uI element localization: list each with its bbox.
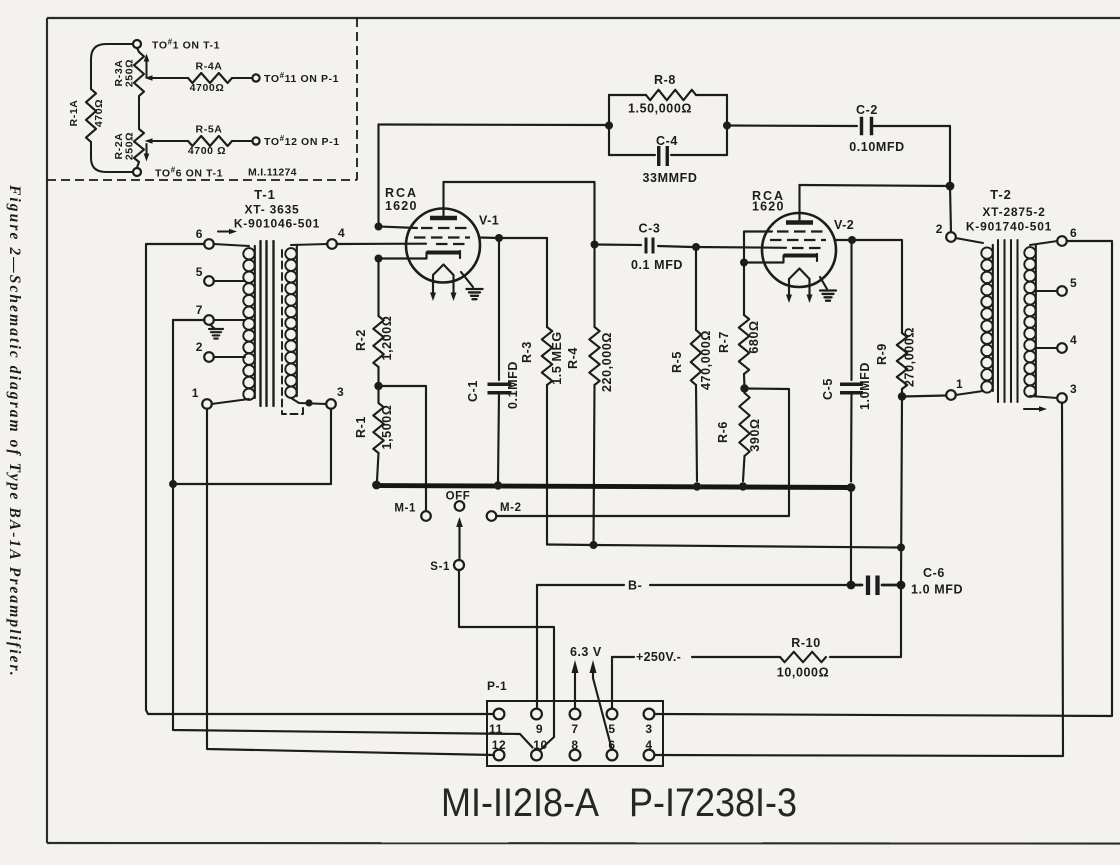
svg-text:6: 6: [608, 738, 615, 752]
node C-6 right: [897, 581, 906, 590]
svg-text:3: 3: [1070, 382, 1077, 396]
terminal TO #6 ON T-1: [133, 168, 141, 176]
P-1 pin 7: [570, 709, 581, 720]
svg-text:3: 3: [645, 722, 652, 736]
svg-text:5: 5: [196, 265, 203, 279]
svg-text:0.10MFD: 0.10MFD: [849, 140, 905, 154]
svg-text:K-901046-501: K-901046-501: [234, 217, 320, 231]
wire C-6 right down to R-10: [830, 585, 901, 657]
svg-text:R-4A: R-4A: [196, 61, 223, 73]
node bus R-6: [739, 482, 747, 490]
ground at T-1 pin 7: [210, 325, 215, 330]
T-2 pin 2: [946, 232, 956, 242]
resistor R-5 470,000 ohm: [695, 247, 697, 330]
resistor R-7 680 ohm: [743, 263, 745, 316]
resistor R-2 1200 ohm: [373, 316, 383, 367]
wire R-6/R-7 junction to M-2 jack: [497, 389, 789, 517]
node V-1 plate load: [591, 241, 599, 249]
jack M-2: [487, 511, 497, 521]
svg-text:1,200Ω: 1,200Ω: [380, 316, 394, 361]
wire T-1 pin 4 to V-1 grid: [337, 243, 427, 245]
T-1 pin 6: [204, 239, 214, 249]
svg-text:1620: 1620: [385, 199, 418, 213]
svg-text:2: 2: [936, 222, 943, 236]
T-2 primary winding: [956, 238, 984, 243]
T-1 primary winding: [214, 244, 250, 246]
tube V-2 RCA 1620: [744, 185, 854, 303]
svg-text:3: 3: [337, 385, 344, 399]
svg-text:680Ω: 680Ω: [747, 320, 761, 353]
svg-text:12: 12: [492, 738, 507, 752]
P-1 pin 4: [644, 750, 655, 761]
svg-text:C-6: C-6: [923, 566, 945, 580]
heater supply arrow from P-1 pin 6: [593, 678, 612, 748]
jack OFF: [455, 501, 465, 511]
T-2 core: [997, 240, 999, 402]
svg-text:P-1: P-1: [487, 679, 507, 693]
resistor R-4 220,000 ohm: [593, 245, 595, 328]
svg-text:4: 4: [338, 226, 345, 240]
svg-text:C-2: C-2: [856, 103, 878, 117]
svg-text:250Ω: 250Ω: [124, 132, 136, 160]
V-1 plate: [430, 216, 457, 220]
wire cathode node down: [377, 259, 379, 317]
capacitor C-2 0.10MFD: [860, 117, 863, 136]
svg-text:8: 8: [571, 738, 578, 752]
svg-text:250Ω: 250Ω: [124, 59, 136, 87]
svg-text:RCA: RCA: [385, 186, 418, 200]
resistor R-3 1.5 MEG: [546, 238, 548, 327]
svg-text:TO#6 ON T-1: TO#6 ON T-1: [155, 166, 223, 180]
svg-text:220,000Ω: 220,000Ω: [600, 332, 614, 392]
ground at V-1: [461, 272, 473, 287]
wire to V-2 grid: [696, 246, 786, 249]
svg-text:MI-II2I8-A: MI-II2I8-A: [441, 781, 599, 825]
svg-text:T-1: T-1: [254, 187, 276, 202]
switch S-1 wiper arrow: [456, 517, 463, 527]
svg-text:R-7: R-7: [717, 331, 731, 353]
node bus right end / C-5: [847, 483, 856, 492]
svg-text:470Ω: 470Ω: [93, 99, 105, 127]
resistor R-3A 250 ohm (pot): [137, 48, 139, 52]
T-2 pin 5: [1035, 290, 1058, 292]
svg-text:1620: 1620: [752, 200, 785, 214]
svg-text:7: 7: [196, 303, 203, 317]
wire S-1 to P-1 pin 10: [459, 570, 554, 751]
svg-text:TO#11 ON P-1: TO#11 ON P-1: [264, 71, 339, 85]
T-1 pin 4: [327, 239, 337, 249]
P-1 pin 9: [531, 709, 542, 720]
ground bus: [375, 486, 851, 488]
terminal TO #12 ON P-1: [252, 137, 259, 144]
T-1 pin 2: [204, 352, 214, 362]
wire T-1 pin 3 to ground return: [173, 409, 331, 485]
P-1 pin 11: [494, 709, 505, 720]
T-1 pin 7: [204, 315, 214, 325]
V-2 grids (dashed): [777, 230, 825, 232]
P-1 pin 6: [607, 750, 618, 761]
node ground return: [169, 480, 177, 488]
node C-6 left: [847, 581, 856, 590]
svg-text:0.1MFD: 0.1MFD: [506, 361, 520, 409]
svg-text:R-3: R-3: [520, 341, 534, 363]
T-1 phasing arrow: [218, 230, 230, 232]
svg-text:R-10: R-10: [791, 636, 821, 650]
terminal TO #11 ON P-1: [252, 74, 259, 81]
T-2 pin 6: [1030, 241, 1058, 245]
T-2 phasing arrow: [1024, 408, 1040, 410]
svg-text:6: 6: [196, 227, 203, 241]
capacitor C-3 0.1MFD: [595, 243, 642, 246]
T-2 pin 4: [1035, 347, 1058, 349]
svg-text:R-6: R-6: [716, 421, 730, 443]
transformer T-1 XT-3635 K-901046-501: [192, 187, 346, 414]
svg-text:2: 2: [196, 340, 203, 354]
svg-text:R-1: R-1: [354, 416, 368, 438]
svg-text:R-8: R-8: [654, 73, 676, 87]
svg-text:M.I.11274: M.I.11274: [248, 167, 297, 179]
wire B+ node down to C-6: [901, 397, 902, 586]
T-1 pin 3: [326, 399, 336, 409]
inset network boundary (dashed): [356, 18, 358, 180]
svg-text:R-5A: R-5A: [196, 124, 223, 136]
resistor R-6 390 ohm: [739, 393, 749, 456]
svg-text:TO#1 ON T-1: TO#1 ON T-1: [152, 38, 220, 52]
wire T-1 pin 6 to P-1 pin 11: [146, 244, 494, 714]
svg-text:R-2: R-2: [354, 329, 368, 351]
V-2 heater: [789, 269, 810, 280]
T-2 secondary winding: [1024, 247, 1035, 258]
svg-text:1.5 MEG: 1.5 MEG: [550, 331, 564, 385]
svg-text:T-2: T-2: [990, 187, 1012, 202]
node bus left end / R-1: [372, 481, 381, 490]
svg-text:10: 10: [533, 738, 548, 752]
svg-text:5: 5: [1070, 276, 1077, 290]
svg-text:K-901740-501: K-901740-501: [966, 220, 1052, 234]
wire T-2 pin 3 to P-1 pin 4: [655, 403, 1064, 757]
svg-text:10,000Ω: 10,000Ω: [777, 666, 829, 680]
node V-1 cathode lead: [375, 255, 383, 263]
resistor R-8 150,000 ohm: [608, 95, 610, 126]
svg-text:270,000Ω: 270,000Ω: [903, 327, 917, 387]
T-2 pin 3: [1030, 396, 1058, 398]
resistor R-10 10,000 ohm: [780, 652, 826, 662]
resistor R-1 1500 ohm: [373, 403, 383, 453]
node V-2 cathode: [740, 259, 748, 267]
svg-text:1,500Ω: 1,500Ω: [380, 405, 394, 450]
P-1 pin 10: [531, 750, 542, 761]
T-1 pin 1: [202, 399, 212, 409]
svg-text:P-I7238I-3: P-I7238I-3: [629, 781, 797, 825]
resistor R-2A 250 ohm (pot): [134, 129, 144, 162]
resistor R-1A 470 ohm: [91, 44, 133, 89]
node V-1 screen: [495, 234, 503, 242]
P-1 pin 12: [494, 750, 505, 761]
svg-text:4700 Ω: 4700 Ω: [188, 145, 226, 157]
svg-text:Figure 2—Schematic diagram of: Figure 2—Schematic diagram of Type BA-1A…: [6, 184, 23, 678]
wire to C-2: [727, 124, 857, 127]
svg-text:V-2: V-2: [834, 218, 854, 232]
wire T-2 pin 6 to P-1 pin 3: [655, 241, 1113, 716]
svg-text:4700Ω: 4700Ω: [190, 82, 225, 94]
node R-9 bottom / T-2 pin 1: [898, 392, 906, 400]
node V-2 plate / T-2 pin 2: [946, 182, 955, 191]
wire node to T-2 pin 2: [950, 186, 951, 233]
V-2 cathode: [784, 253, 818, 257]
node R-1/R-2 junction: [377, 367, 379, 403]
svg-text:M-1: M-1: [394, 503, 416, 515]
wire bus end to C-6 left: [850, 488, 852, 586]
wire V-2 plate: [800, 185, 951, 186]
wire screen to R-9: [852, 240, 902, 333]
V-2 plate: [786, 220, 813, 224]
svg-text:XT- 3635: XT- 3635: [244, 203, 299, 217]
wire junction to M-1 jack: [379, 386, 427, 512]
svg-text:R-5: R-5: [670, 351, 684, 373]
svg-text:33MMFD: 33MMFD: [643, 171, 698, 185]
node feedback left: [605, 122, 613, 130]
svg-text:9: 9: [536, 722, 543, 736]
resistor R-5A 4700 ohm with wiper arrow: [145, 138, 153, 144]
connector P-1: [487, 679, 663, 766]
T-2 pin 1: [946, 390, 956, 400]
svg-text:1.0MFD: 1.0MFD: [858, 362, 872, 410]
capacitor C-1 0.1MFD: [488, 383, 512, 386]
wire B- to C-6: [537, 584, 624, 586]
svg-text:B-: B-: [628, 579, 642, 593]
node V-2 screen: [835, 239, 852, 241]
jack M-1: [421, 511, 431, 521]
svg-text:R-4: R-4: [566, 347, 580, 369]
T-1 core: [259, 241, 261, 406]
capacitor C-6 1.0 MFD: [855, 584, 862, 587]
svg-text:C-3: C-3: [639, 222, 661, 236]
wire R-10 to +250V: [692, 656, 780, 658]
V-1 cathode: [427, 250, 461, 254]
T-1 secondary winding: [291, 244, 328, 245]
svg-text:+250V.-: +250V.-: [636, 650, 681, 664]
node R-4 bottom / B+ rail: [590, 541, 598, 549]
wire T-1 pin 7 riser: [173, 319, 205, 321]
terminal TO #1 ON T-1: [133, 40, 141, 48]
T-1 pin 5: [204, 276, 214, 286]
svg-text:1.0 MFD: 1.0 MFD: [911, 583, 963, 597]
wire R-3A to R-2A: [138, 96, 140, 129]
svg-text:5: 5: [608, 722, 615, 736]
resistor R-9 270,000 ohm: [897, 333, 907, 389]
svg-text:C-4: C-4: [656, 134, 678, 148]
svg-text:XT-2875-2: XT-2875-2: [982, 205, 1045, 219]
svg-text:4: 4: [1070, 333, 1077, 347]
switch S-1: [454, 560, 464, 570]
ground at V-2: [820, 277, 827, 289]
svg-text:M-2: M-2: [500, 502, 522, 514]
svg-text:0.1 MFD: 0.1 MFD: [631, 258, 683, 272]
wire V-2 suppressor to cathode node: [744, 232, 772, 263]
node bus R-5: [693, 482, 701, 490]
P-1 pin 8: [570, 750, 581, 761]
svg-text:1: 1: [956, 377, 963, 391]
T-1 electrostatic shield (dashed): [282, 250, 303, 414]
wire T-1 pin 1 to P-1 pin 12: [207, 409, 494, 756]
wire screen node down to C-1: [498, 238, 500, 380]
svg-text:V-1: V-1: [479, 214, 499, 228]
svg-text:4: 4: [645, 738, 652, 752]
svg-text:1.50,000Ω: 1.50,000Ω: [628, 102, 692, 116]
svg-text:R-1A: R-1A: [68, 100, 80, 127]
svg-text:470,000Ω: 470,000Ω: [699, 330, 713, 390]
node feedback right: [723, 122, 731, 130]
node bus C-1: [494, 481, 502, 489]
wire +250V riser to P-1 pin 5: [611, 657, 613, 709]
svg-text:OFF: OFF: [446, 491, 471, 503]
node R-6/R-7 junction: [740, 384, 748, 392]
resistor R-4A 4700 ohm with wiper arrow: [145, 75, 153, 81]
svg-text:TO#12 ON P-1: TO#12 ON P-1: [264, 134, 340, 148]
svg-text:C-5: C-5: [821, 378, 835, 400]
wire ground return to P-1 pin 10: [173, 484, 533, 748]
wire V-1 plate to R-4 top: [444, 182, 595, 245]
P-1 pin 5: [607, 709, 618, 720]
wire screen node to R-3: [499, 237, 547, 239]
svg-text:S-1: S-1: [430, 561, 450, 573]
wire B+ rail to right: [547, 543, 594, 546]
svg-text:7: 7: [571, 722, 578, 736]
wire C-2 to V-2 plate node: [872, 125, 950, 127]
svg-text:6.3 V: 6.3 V: [570, 645, 602, 659]
svg-text:1: 1: [192, 386, 199, 400]
capacitor C-5 1.0MFD: [850, 240, 852, 380]
svg-text:6: 6: [1070, 226, 1077, 240]
svg-text:C-1: C-1: [466, 380, 480, 402]
svg-text:390Ω: 390Ω: [748, 418, 762, 451]
V-1 heater: [433, 265, 454, 276]
P-1 pin 3: [644, 709, 655, 720]
capacitor C-4 33MMFD: [608, 126, 610, 156]
wire P-1 pin 9 riser: [536, 585, 538, 709]
node V-2 grid / R-5: [692, 243, 700, 251]
heater supply arrow from P-1 pin 7: [574, 672, 576, 709]
V-1 grids (dashed): [421, 227, 469, 229]
tube V-1 RCA 1620: [379, 182, 499, 301]
wire V-1 cathode node to feedback rail: [377, 125, 379, 227]
transformer T-2 XT-2875-2 K-901740-501: [936, 187, 1078, 412]
node V-1 cathode/suppressor: [375, 223, 383, 231]
svg-text:R-9: R-9: [875, 343, 889, 365]
node B+ / C-6 right riser: [897, 544, 905, 552]
